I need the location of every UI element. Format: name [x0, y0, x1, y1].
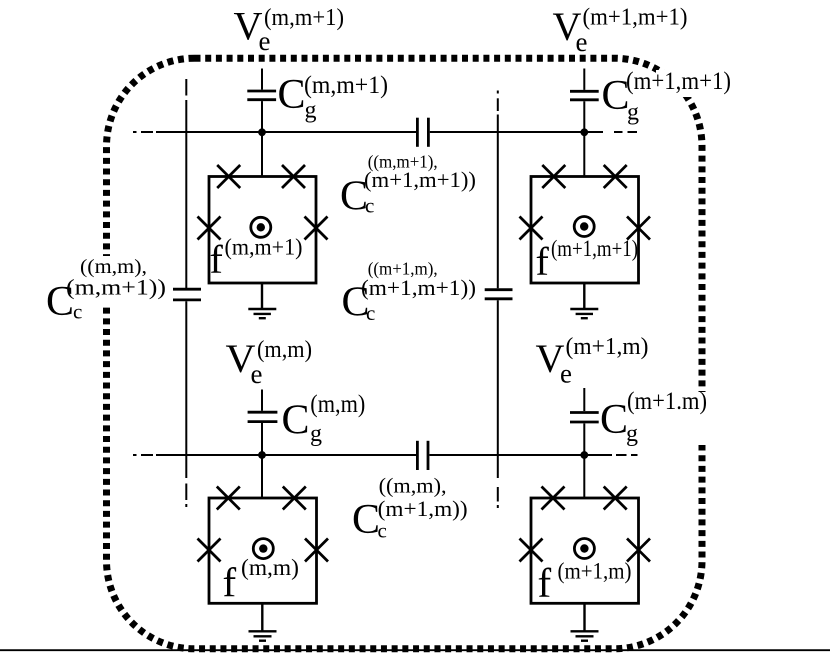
svg-text:(m+1,m+1): (m+1,m+1): [551, 236, 638, 261]
svg-text:C: C: [282, 397, 310, 443]
Josephson junction TL-d: [305, 217, 328, 240]
svg-text:e: e: [251, 359, 263, 389]
value label Cc((m,m),(m+1,m)) bottom middle: [352, 474, 468, 544]
Josephson junction TL-a: [217, 165, 240, 188]
wire: bottom horizontal bus: [133, 454, 638, 456]
svg-text:g: g: [627, 100, 639, 126]
flux symbol TR: [574, 217, 594, 237]
wire: top horizontal bus: [133, 131, 637, 133]
svg-text:f: f: [223, 560, 237, 606]
Josephson junction TR-c: [520, 217, 543, 240]
svg-text:f: f: [538, 560, 552, 606]
svg-text:(m,m): (m,m): [257, 337, 312, 363]
loop label f(m+1,m+1): [536, 236, 639, 284]
svg-text:(m+1.m): (m+1.m): [627, 388, 707, 415]
loop label f(m,m): [223, 555, 300, 606]
node label Ve(m+1,m): [536, 334, 649, 389]
wire: top-left Ve lead: [261, 69, 263, 177]
svg-text:(m+1,m)): (m+1,m)): [378, 496, 468, 521]
svg-text:(m,m+1)): (m,m+1)): [66, 275, 166, 300]
svg-text:((m,m),: ((m,m),: [379, 474, 447, 498]
value label Cc((m,m+1),(m+1,m+1)) top middle: [340, 152, 476, 220]
svg-text:(m+1,m+1)): (m+1,m+1)): [361, 275, 476, 300]
value label Cg(m+1,m+1): [602, 68, 736, 126]
Josephson junction BL-b: [283, 487, 306, 510]
ground TL: [248, 283, 276, 318]
node: top-right junction dot: [580, 128, 588, 136]
svg-text:f: f: [536, 239, 550, 284]
value label Cg(m,m): [282, 391, 366, 447]
capacitor Cc((m,m),(m,m+1)) left plates: [173, 289, 201, 300]
node: top-left junction dot: [258, 128, 266, 136]
value label Cc((m,m),(m,m+1)) left: [46, 256, 170, 325]
svg-text:f: f: [210, 237, 224, 282]
capacitor Cc((m,m),(m+1,m)) bottom middle plates: [417, 441, 428, 470]
value label Cg(m+1.m): [600, 388, 710, 447]
capacitor Cg(m,m) plates: [248, 412, 278, 421]
capacitor Cc((m+1,m),(m+1,m+1)) middle plates: [485, 290, 513, 299]
loop label f(m+1,m): [538, 559, 632, 607]
ground BL: [249, 603, 277, 640]
capacitor Cg(m+1,m+1) plates: [570, 91, 599, 100]
node: bottom-right junction dot: [580, 451, 588, 459]
flux symbol BL: [253, 539, 273, 559]
svg-text:(m,m+1): (m,m+1): [225, 235, 303, 260]
Josephson junction TR-b: [604, 165, 627, 188]
svg-text:(m+1,m): (m+1,m): [566, 334, 649, 360]
qubit loop f(m,m+1): [209, 177, 316, 284]
Josephson junction BR-c: [520, 539, 543, 562]
wire: right vertical coupling line: [497, 91, 499, 509]
svg-text:(m+1,m): (m+1,m): [558, 559, 632, 584]
flux symbol BR: [574, 539, 594, 559]
wire: bottom-left Ve lead: [261, 390, 263, 499]
node label Ve(m+1,m+1): [553, 4, 688, 57]
qubit loop f(m,m): [209, 498, 317, 603]
loop label f(m,m+1): [210, 235, 303, 283]
Josephson junction BR-a: [542, 487, 565, 510]
capacitor Cg(m+1.m) plates: [570, 413, 599, 423]
Josephson junction BR-b: [604, 487, 627, 510]
svg-text:c: c: [378, 519, 387, 543]
wire: top-right Ve lead: [583, 69, 585, 177]
Josephson junction TL-b: [282, 165, 305, 188]
Josephson junction TR-d: [627, 217, 650, 240]
unit-cell dashed boundary: [107, 58, 703, 649]
wire: bottom-right Ve lead: [583, 388, 585, 498]
svg-text:C: C: [278, 72, 306, 118]
svg-text:e: e: [576, 27, 588, 57]
ground TR: [570, 283, 598, 318]
flux symbol TL: [251, 217, 271, 237]
svg-text:(m+1,m+1): (m+1,m+1): [626, 68, 731, 95]
ground BR: [571, 603, 599, 640]
svg-text:(m,m+1): (m,m+1): [304, 72, 388, 99]
node: bottom-left junction dot: [258, 451, 266, 459]
value label Cc((m+1,m),(m+1,m+1)) middle: [342, 259, 477, 326]
svg-text:g: g: [310, 421, 322, 447]
value label Cg(m,m+1): [278, 72, 389, 124]
svg-text:c: c: [365, 194, 374, 218]
Josephson junction BL-a: [217, 487, 240, 510]
svg-text:e: e: [560, 359, 572, 389]
svg-text:g: g: [626, 421, 638, 447]
svg-text:g: g: [305, 98, 317, 124]
svg-text:C: C: [600, 397, 628, 443]
Josephson junction BL-d: [305, 539, 328, 562]
svg-text:e: e: [259, 26, 271, 56]
qubit loop f(m+1,m+1): [531, 177, 639, 284]
svg-text:(m,m): (m,m): [310, 391, 365, 418]
qubit loop f(m+1,m): [531, 498, 639, 603]
node label Ve(m,m+1): [234, 4, 345, 57]
svg-text:c: c: [73, 300, 82, 324]
Josephson junction BL-c: [198, 539, 221, 562]
capacitor Cc((m,m+1),(m+1,m+1)) top middle plates: [417, 118, 428, 147]
Josephson junction TR-a: [542, 165, 565, 188]
Josephson junction BR-d: [627, 539, 650, 562]
wire: left vertical coupling line: [185, 79, 187, 507]
svg-text:(m+1,m+1): (m+1,m+1): [583, 5, 688, 31]
svg-text:C: C: [352, 497, 380, 543]
capacitor Cg(m,m+1) plates: [247, 91, 276, 100]
svg-text:(m,m): (m,m): [241, 555, 299, 580]
node label Ve(m,m): [226, 336, 313, 389]
svg-text:(m,m+1): (m,m+1): [264, 5, 344, 31]
svg-text:c: c: [366, 301, 375, 325]
Josephson junction TL-c: [198, 217, 221, 240]
svg-text:(m+1,m+1)): (m+1,m+1)): [364, 167, 476, 192]
bottom frame line: [0, 649, 830, 651]
